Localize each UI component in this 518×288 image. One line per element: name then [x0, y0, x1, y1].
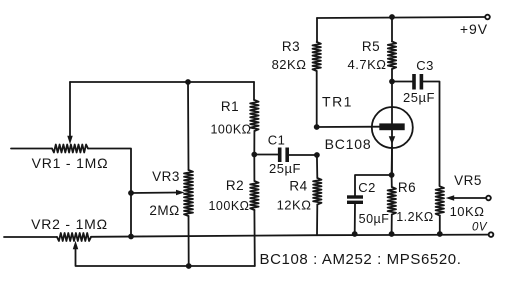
wire upper-left rail — [70, 81, 254, 83]
wire VR3 bottom — [188, 216, 190, 266]
node C2 bottom junction — [352, 231, 358, 237]
wire R2 bottom through rail — [253, 210, 255, 266]
svg-text:BC108: BC108 — [325, 136, 372, 152]
wire R3 bottom to base node — [316, 71, 318, 127]
resistor R2 — [250, 181, 258, 210]
wire C1 left lead — [254, 154, 278, 156]
node left column bottom junction — [128, 234, 134, 240]
svg-text:0V: 0V — [472, 222, 488, 234]
wire emitter to junction — [391, 147, 393, 176]
svg-text:R3: R3 — [282, 39, 300, 54]
terminal +9V — [485, 15, 490, 20]
wire R6 top — [391, 175, 393, 187]
wire C2 bottom lead — [354, 204, 356, 234]
resistor R1 — [250, 100, 258, 131]
wire emitter lead — [391, 130, 393, 175]
node emitter junction — [389, 172, 395, 178]
wire bottom rail — [4, 236, 57, 238]
svg-text:R1: R1 — [221, 99, 239, 114]
wire R6 bottom — [391, 215, 393, 235]
svg-text:82KΩ: 82KΩ — [272, 57, 307, 72]
resistor R3 — [313, 42, 321, 71]
wire R1 bottom — [253, 131, 255, 155]
capacitor C1 — [278, 148, 289, 163]
wire VR3 wiper — [131, 192, 178, 195]
wire VR1 wiper — [69, 82, 71, 138]
svg-text:10KΩ: 10KΩ — [450, 204, 485, 219]
node collector junction — [389, 79, 395, 85]
svg-text:VR2 - 1MΩ: VR2 - 1MΩ — [31, 216, 108, 232]
wire C3 to VR5 column — [423, 82, 439, 187]
capacitor C3 — [412, 74, 423, 90]
svg-text:C2: C2 — [358, 180, 376, 195]
wire C1 right lead — [289, 154, 317, 156]
node VR3 top junction — [185, 79, 191, 85]
wire VR5 wiper — [452, 197, 485, 199]
svg-text:R2: R2 — [226, 178, 244, 193]
node R6 bottom junction — [389, 231, 395, 237]
node R5 top junction — [389, 14, 395, 20]
wire R4 top — [316, 155, 318, 178]
svg-text:BC108 : AM252 : MPS6520.: BC108 : AM252 : MPS6520. — [260, 251, 462, 268]
wire R4 bottom to rail — [316, 205, 318, 236]
svg-text:100KΩ: 100KΩ — [210, 123, 251, 137]
wire VR3 top — [187, 82, 190, 170]
potentiometer VR3 — [184, 170, 193, 216]
transistor TR1 base bar — [379, 123, 404, 130]
transistor TR1 emitter arrow — [389, 136, 396, 144]
wire top +9V rail — [317, 17, 486, 18]
arrow VR5 wiper — [446, 195, 455, 201]
node C1 left junction — [251, 152, 257, 158]
resistor R6 — [388, 187, 396, 215]
wire collector node to C3 — [392, 81, 413, 83]
svg-text:R4: R4 — [289, 179, 307, 194]
svg-text:C3: C3 — [416, 58, 434, 73]
transistor TR1 body — [372, 107, 413, 148]
resistor R4 — [313, 178, 321, 205]
node VR3 bottom junction — [186, 263, 192, 269]
svg-text:TR1: TR1 — [322, 94, 353, 110]
svg-text:R5: R5 — [362, 39, 380, 54]
wire C2 top lead — [355, 175, 392, 196]
svg-text:25µF: 25µF — [403, 90, 435, 105]
svg-text:2MΩ: 2MΩ — [149, 203, 179, 218]
arrow VR2 wiper — [73, 241, 79, 250]
wire bottom rail right — [91, 235, 488, 237]
svg-text:1.2KΩ: 1.2KΩ — [396, 210, 434, 224]
node base junction — [314, 124, 320, 130]
wire VR2 wiper stub — [76, 248, 255, 266]
svg-text:R6: R6 — [398, 180, 416, 195]
wire R3 top — [316, 18, 318, 42]
svg-text:VR3: VR3 — [152, 169, 180, 184]
wire collector into transistor — [391, 82, 393, 125]
wire VR5 bottom — [439, 216, 441, 235]
capacitor C2 — [347, 195, 363, 204]
svg-text:4.7KΩ: 4.7KΩ — [348, 57, 387, 72]
terminal 0V — [489, 232, 494, 237]
svg-text:50µF: 50µF — [359, 212, 390, 226]
svg-text:VR1 - 1MΩ: VR1 - 1MΩ — [32, 155, 109, 171]
wire base lead — [317, 126, 380, 128]
potentiometer VR2 — [57, 233, 91, 241]
arrow VR1 wiper — [67, 136, 73, 145]
resistor R5 — [388, 42, 396, 70]
svg-text:100KΩ: 100KΩ — [208, 199, 249, 213]
svg-text:VR5: VR5 — [454, 173, 482, 188]
wire R5 bottom to collector node — [391, 69, 393, 82]
node C1 right junction — [314, 152, 320, 158]
wire VR1 right lead — [88, 149, 131, 237]
terminal VR5 wiper — [486, 196, 491, 201]
node VR5 bottom junction — [437, 231, 443, 237]
svg-text:25µF: 25µF — [269, 161, 301, 176]
svg-text:12KΩ: 12KΩ — [277, 198, 312, 213]
svg-text:+9V: +9V — [460, 21, 488, 37]
potentiometer VR1 — [52, 145, 88, 153]
svg-text:C1: C1 — [268, 133, 286, 148]
arrow VR3 wiper — [176, 190, 185, 196]
wire R1 top corner — [253, 82, 255, 100]
wire R2 top — [253, 155, 255, 182]
node VR3 wiper junction — [128, 190, 134, 196]
wire VR1 left lead — [11, 148, 52, 150]
potentiometer VR5 — [436, 186, 444, 215]
wire R5 top — [391, 17, 393, 42]
